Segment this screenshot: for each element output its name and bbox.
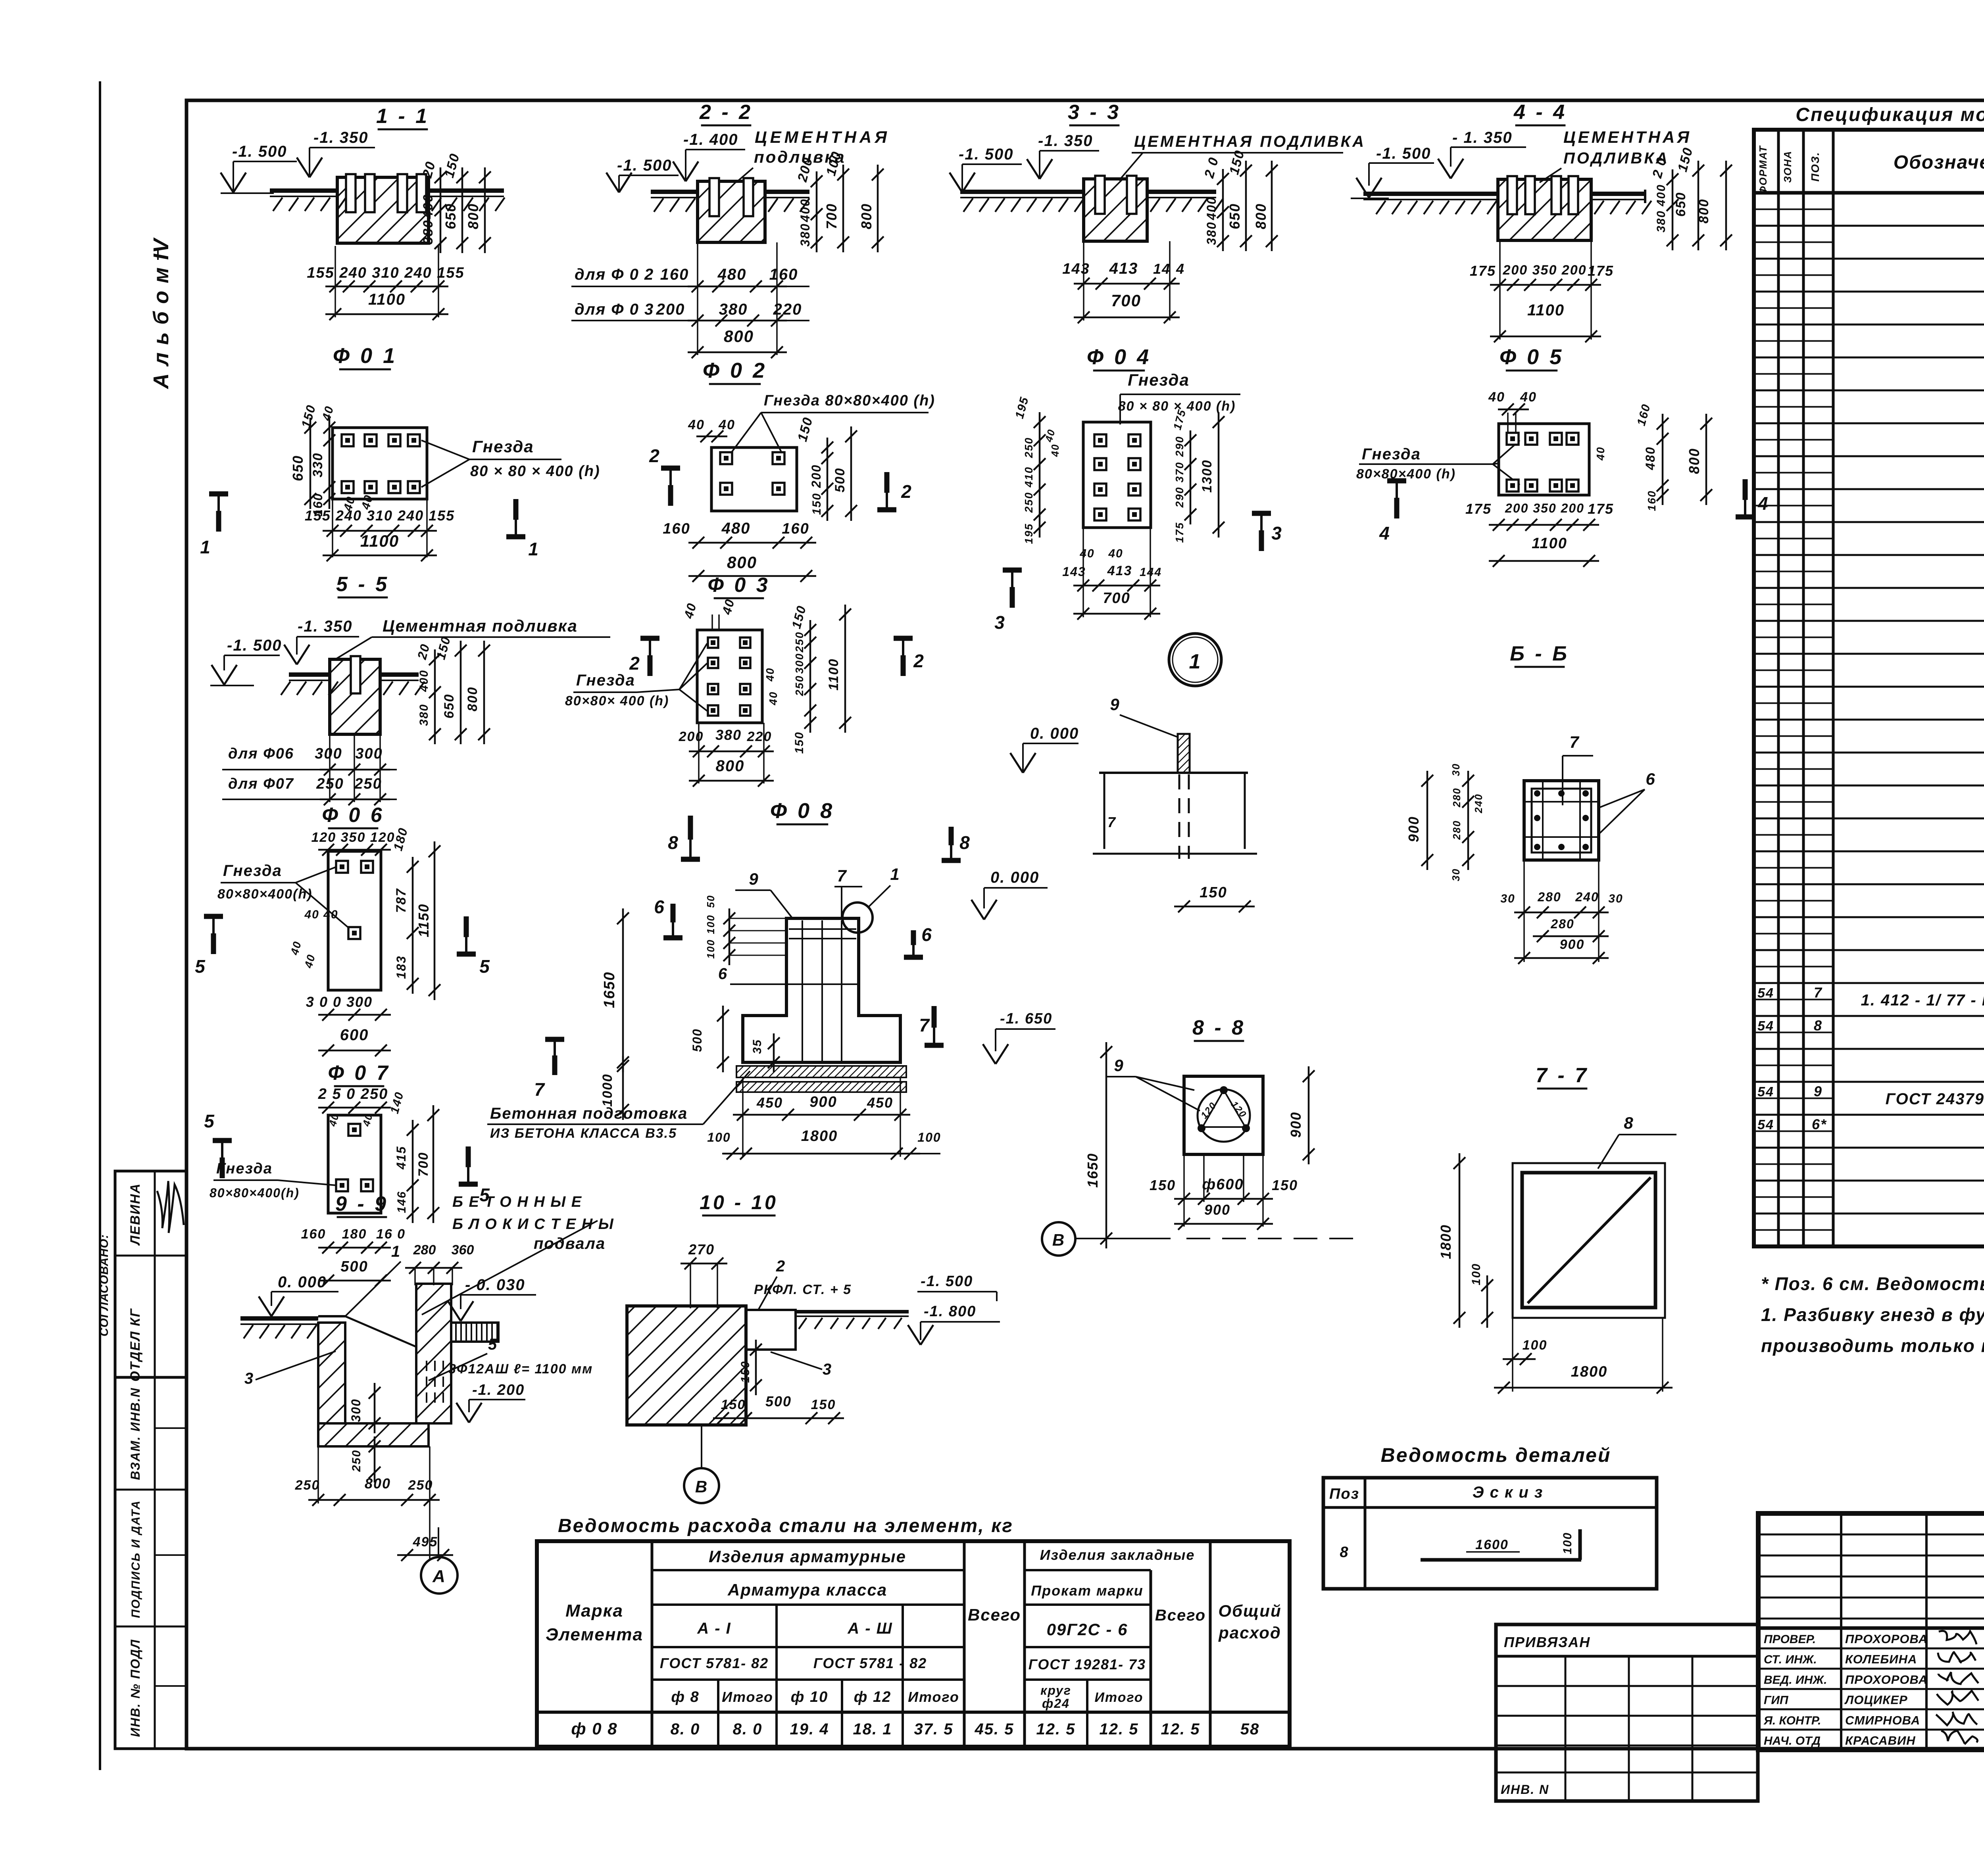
plan F04 sockets — [1094, 434, 1140, 520]
svg-text:280: 280 — [1451, 820, 1463, 840]
section 5-5 foundation block — [330, 659, 380, 734]
svg-text:400: 400 — [1655, 184, 1668, 207]
svg-text:40: 40 — [767, 691, 779, 705]
section 4-4 right dims — [1649, 146, 1732, 250]
svg-text:54: 54 — [1757, 1084, 1774, 1099]
svg-text:410: 410 — [1023, 467, 1035, 488]
svg-text:40: 40 — [688, 417, 705, 432]
svg-text:Ф 0 7: Ф 0 7 — [328, 1062, 390, 1085]
svg-text:700: 700 — [416, 1152, 431, 1177]
svg-text:Гнезда: Гнезда — [1128, 371, 1190, 389]
section 7-7 title — [1536, 1064, 1589, 1089]
svg-text:ЛОЦИКЕР: ЛОЦИКЕР — [1844, 1693, 1908, 1707]
svg-text:Ведомость деталей: Ведомость деталей — [1381, 1444, 1611, 1466]
plan F05 outline — [1499, 424, 1589, 495]
section 9-9 title — [335, 1192, 388, 1217]
svg-text:для Ф 0 3: для Ф 0 3 — [575, 301, 654, 318]
svg-text:ИНВ. № ПОДЛ: ИНВ. № ПОДЛ — [128, 1639, 142, 1737]
svg-text:150: 150 — [1200, 884, 1227, 901]
svg-text:для Ф07: для Ф07 — [228, 776, 294, 792]
plan F02 gnezda label — [730, 392, 935, 454]
plan F06 bottom dims — [306, 994, 391, 1056]
svg-text:195: 195 — [1023, 523, 1035, 544]
svg-text:ф 12: ф 12 — [854, 1689, 891, 1705]
section B-B title — [1510, 642, 1569, 667]
svg-text:100: 100 — [705, 914, 717, 934]
svg-text:1 - 1: 1 - 1 — [376, 105, 429, 128]
svg-text:1. 412 - 1/ 77 - В. 3 - 020: 1. 412 - 1/ 77 - В. 3 - 020 — [1861, 991, 1984, 1009]
section 9-9 footing — [318, 1423, 429, 1446]
section 9-9 label 3 — [244, 1351, 336, 1387]
svg-text:7: 7 — [1107, 814, 1116, 830]
svg-text:ЦЕМЕНТНАЯ: ЦЕМЕНТНАЯ — [755, 128, 890, 146]
section 8-8 square — [1184, 1076, 1263, 1154]
svg-text:Э с к и з: Э с к и з — [1473, 1484, 1544, 1501]
section 2-2 title — [699, 101, 753, 125]
svg-text:1800: 1800 — [1571, 1363, 1608, 1380]
section 10-10 bottom dims — [713, 1393, 844, 1425]
svg-text:Ф 0 6: Ф 0 6 — [322, 804, 384, 827]
spec table grid — [1754, 130, 1984, 1246]
vedomost detalei sketch — [1421, 1529, 1581, 1560]
svg-text:40: 40 — [1488, 390, 1505, 405]
section 5-5 right dims — [415, 635, 490, 744]
section 8-8 title — [1192, 1016, 1246, 1041]
plan F01 left dims — [290, 403, 336, 517]
svg-text:ФОРМАТ: ФОРМАТ — [1757, 145, 1769, 194]
svg-text:800: 800 — [1696, 199, 1711, 224]
svg-text:1650: 1650 — [1084, 1153, 1101, 1188]
detail 1 dim 150 — [1174, 884, 1255, 912]
section 9-9 pit left wall — [318, 1316, 416, 1423]
svg-text:150: 150 — [1150, 1177, 1176, 1193]
svg-text:2: 2 — [913, 651, 925, 671]
svg-text:Всего: Всего — [1155, 1607, 1206, 1624]
plan F04 outline — [1083, 422, 1151, 528]
svg-text:6: 6 — [921, 924, 932, 945]
svg-text:150: 150 — [721, 1397, 746, 1412]
svg-text:1: 1 — [1189, 650, 1202, 673]
plan F03 outline — [697, 630, 762, 723]
drawing frame — [186, 100, 1984, 1749]
section 2-2 right dims — [795, 150, 884, 252]
svg-text:-1. 650: -1. 650 — [1000, 1010, 1052, 1027]
elevation F08 title — [770, 799, 834, 824]
svg-text:40: 40 — [1520, 390, 1537, 405]
plan F06 right dims — [394, 841, 440, 1000]
section 10-10 label 3 — [771, 1352, 832, 1378]
svg-text:В: В — [1052, 1231, 1065, 1249]
spec table heading — [1796, 104, 1984, 125]
svg-text:58: 58 — [1240, 1720, 1260, 1738]
plan F04 title — [1087, 345, 1151, 371]
svg-text:СОГЛАСОВАНО:: СОГЛАСОВАНО: — [98, 1234, 111, 1336]
svg-text:7: 7 — [919, 1015, 930, 1035]
svg-text:ИЗ БЕТОНА КЛАССА В3.5: ИЗ БЕТОНА КЛАССА В3.5 — [490, 1126, 677, 1141]
section 3-3 right dims — [1202, 148, 1278, 251]
svg-text:37. 5: 37. 5 — [914, 1720, 954, 1738]
section 2-2 table dims — [571, 242, 809, 358]
svg-text:9: 9 — [1114, 1056, 1124, 1075]
section B-B bottom dims — [1500, 860, 1623, 964]
svg-text:8: 8 — [1624, 1114, 1634, 1132]
svg-text:50: 50 — [705, 895, 717, 908]
svg-text:500: 500 — [340, 1258, 368, 1275]
svg-text:183: 183 — [394, 955, 408, 979]
plan F01 title — [333, 344, 397, 369]
svg-text:240: 240 — [1473, 793, 1484, 813]
svg-text:Гнезда: Гнезда — [223, 862, 282, 879]
svg-text:Ф 0 1: Ф 0 1 — [333, 344, 397, 368]
svg-text:8: 8 — [1814, 1017, 1823, 1033]
svg-text:380: 380 — [1204, 221, 1219, 245]
svg-text:175: 175 — [1588, 501, 1614, 517]
album label — [149, 237, 173, 390]
plan F06 outline — [328, 851, 381, 990]
plan F07 title — [328, 1062, 390, 1086]
svg-text:290: 290 — [1173, 436, 1186, 457]
svg-text:6: 6 — [718, 965, 728, 983]
svg-text:ПРИВЯЗАН: ПРИВЯЗАН — [1504, 1634, 1590, 1650]
svg-text:300: 300 — [355, 745, 383, 762]
svg-text:1: 1 — [890, 865, 900, 883]
svg-text:0. 000: 0. 000 — [278, 1273, 327, 1291]
spec table header texts — [1757, 145, 1984, 194]
svg-text:300: 300 — [315, 745, 342, 762]
detail 1 level 0.000 — [1010, 725, 1079, 773]
svg-text:1100: 1100 — [1527, 301, 1565, 319]
section 2-2 level -1.500 — [606, 157, 679, 192]
section 2-2 cement label — [736, 128, 890, 182]
elevation F08 base slabs — [736, 1066, 906, 1092]
plan F07 right dims — [394, 1105, 439, 1223]
svg-text:-1. 350: -1. 350 — [298, 618, 353, 635]
svg-text:-1. 500: -1. 500 — [617, 157, 672, 174]
plan F03 cut marks — [629, 638, 925, 676]
section 1-1 title — [376, 105, 429, 129]
svg-text:380: 380 — [1655, 210, 1668, 232]
svg-text:8. 0: 8. 0 — [671, 1720, 700, 1738]
svg-text:3 - 3: 3 - 3 — [1068, 101, 1121, 124]
svg-text:45. 5: 45. 5 — [975, 1720, 1014, 1738]
elevation F08 cut mark 7 right — [919, 1006, 944, 1045]
svg-text:5 - 5: 5 - 5 — [336, 573, 389, 596]
elevation F08 rebar callout 6 — [718, 965, 859, 984]
svg-text:250: 250 — [295, 1478, 320, 1493]
elevation F08 cut marks 6 — [654, 897, 932, 957]
plan F01 outline — [333, 428, 427, 499]
title block names — [1763, 1631, 1978, 1747]
svg-text:7 - 7: 7 - 7 — [1536, 1064, 1589, 1087]
svg-text:-1. 500: -1. 500 — [227, 637, 282, 654]
section 8-8 left dim 1650 — [1084, 1042, 1112, 1248]
svg-text:* Поз. 6 см. Вед: * Поз. 6 см. Ведомость деталей — [1761, 1273, 1984, 1294]
svg-text:Цементная подливка: Цементная подливка — [383, 616, 578, 635]
svg-text:- 0. 030: - 0. 030 — [465, 1276, 525, 1294]
svg-text:4: 4 — [1176, 261, 1185, 277]
svg-text:-1. 500: -1. 500 — [1376, 145, 1431, 162]
svg-text:495: 495 — [413, 1534, 438, 1550]
svg-text:150: 150 — [793, 732, 806, 754]
svg-text:-1. 350: -1. 350 — [1038, 132, 1093, 150]
svg-text:800: 800 — [724, 327, 754, 346]
svg-text:500: 500 — [690, 1028, 704, 1052]
svg-text:280: 280 — [1537, 890, 1561, 904]
svg-text:Гнезда 80×80×400 (h): Гнезда 80×80×400 (h) — [764, 392, 935, 409]
section 5-5 table dims — [222, 734, 397, 805]
svg-text:415: 415 — [394, 1146, 408, 1169]
plan F04 bottom dims — [1062, 528, 1162, 620]
section B-B left dims — [1405, 763, 1484, 881]
svg-text:Б Е Т О Н Н Ы Е: Б Е Т О Н Н Ы Е — [452, 1194, 582, 1210]
svg-text:40: 40 — [1079, 547, 1094, 560]
plan F04 gnezda label — [1118, 371, 1240, 424]
svg-text:160: 160 — [660, 266, 689, 283]
svg-text:250: 250 — [793, 632, 806, 653]
svg-text:Поз: Поз — [1329, 1486, 1359, 1502]
svg-text:290: 290 — [1173, 487, 1186, 508]
svg-text:А - I: А - I — [697, 1620, 731, 1637]
svg-text:100: 100 — [1470, 1263, 1483, 1285]
svg-text:450: 450 — [756, 1094, 783, 1111]
svg-text:СМИРНОВА: СМИРНОВА — [1845, 1713, 1920, 1727]
svg-text:800: 800 — [727, 553, 757, 572]
svg-text:270: 270 — [688, 1241, 715, 1258]
svg-text:8: 8 — [1340, 1544, 1349, 1561]
section 1-1 anchor slots — [346, 174, 426, 212]
section 7-7 label 8 — [1598, 1114, 1676, 1169]
svg-text:40 40: 40 40 — [304, 908, 338, 921]
section 1-1 level -1.350 — [297, 129, 375, 177]
section 1-1 level -1.500 — [221, 143, 297, 192]
svg-text:Ф 0 2: Ф 0 2 — [703, 359, 767, 382]
section 1-1 bottom dims — [307, 246, 464, 320]
elevation F08 level -1.650 right — [983, 1010, 1055, 1064]
plan F02 right dims — [809, 426, 857, 521]
svg-text:5: 5 — [488, 1336, 498, 1353]
svg-text:ЗОНА: ЗОНА — [1782, 150, 1794, 183]
svg-text:900: 900 — [1405, 816, 1422, 842]
section 4-4 level -1.500 — [1351, 145, 1434, 198]
svg-text:1600: 1600 — [1475, 1537, 1509, 1552]
steel table title — [558, 1515, 1013, 1536]
svg-text:380: 380 — [417, 704, 431, 726]
svg-text:100: 100 — [917, 1130, 941, 1144]
svg-text:1800: 1800 — [801, 1128, 838, 1144]
svg-text:40: 40 — [718, 417, 735, 432]
plan F02 outline — [711, 447, 797, 511]
plan F03 gnezda label — [565, 643, 707, 711]
svg-text:0. 000: 0. 000 — [1030, 725, 1079, 742]
detail 1 label 9 — [1110, 695, 1178, 737]
svg-text:220: 220 — [747, 729, 772, 744]
svg-text:400: 400 — [798, 198, 812, 222]
svg-text:300: 300 — [793, 653, 806, 674]
section 2-2 floor slabs — [651, 190, 809, 212]
spec table entries — [1757, 200, 1984, 1206]
section 4-4 foundation block — [1498, 179, 1591, 240]
svg-text:14: 14 — [1153, 261, 1171, 277]
svg-text:ЦЕМЕНТНАЯ: ЦЕМЕНТНАЯ — [1563, 128, 1692, 146]
svg-text:155 240 310 240 155: 155 240 310 240 155 — [305, 507, 455, 524]
svg-text:380: 380 — [798, 223, 812, 246]
svg-text:146: 146 — [395, 1191, 408, 1213]
svg-text:5: 5 — [195, 956, 206, 977]
svg-text:09Г2С - 6: 09Г2С - 6 — [1047, 1620, 1128, 1639]
svg-text:1000: 1000 — [600, 1073, 615, 1107]
section 5-5 anchor slot — [351, 656, 360, 693]
svg-text:700: 700 — [1111, 291, 1141, 310]
section 9-9 level 0.000 — [259, 1273, 338, 1316]
plan F02 40-40 dims — [688, 415, 816, 443]
svg-text:800: 800 — [716, 757, 745, 775]
plan F02 bottom dims — [663, 520, 816, 582]
plan F05 40-40 dims — [1488, 390, 1537, 439]
svg-text:100: 100 — [1523, 1338, 1548, 1353]
plan F03 top dims — [681, 597, 809, 630]
plan F06 title — [322, 804, 384, 828]
stamp box soglasovano — [98, 1171, 186, 1382]
svg-text:2: 2 — [649, 445, 660, 466]
svg-text:700: 700 — [1103, 590, 1130, 607]
svg-text:413: 413 — [1109, 260, 1138, 277]
svg-text:6: 6 — [1646, 770, 1655, 788]
plan F05 title — [1500, 345, 1564, 371]
svg-text:19. 4: 19. 4 — [790, 1720, 829, 1738]
svg-text:160: 160 — [769, 266, 798, 283]
svg-text:2: 2 — [776, 1258, 786, 1275]
svg-text:200 350 200: 200 350 200 — [1502, 263, 1586, 278]
plan F05 cut marks — [1379, 479, 1769, 543]
stamp box inv — [115, 1377, 186, 1749]
detail 1 floor line — [1099, 773, 1248, 859]
svg-text:40: 40 — [1108, 547, 1123, 560]
detail 1 pit bottom — [1093, 853, 1257, 855]
svg-text:1150: 1150 — [415, 903, 432, 937]
section 10-10 title — [700, 1191, 778, 1215]
svg-text:9 - 9: 9 - 9 — [335, 1192, 388, 1215]
vedomost detalei table — [1323, 1478, 1657, 1589]
svg-text:Изделия закладные: Изделия закладные — [1040, 1547, 1195, 1563]
plan F03 bottom dims — [679, 723, 774, 787]
svg-text:500: 500 — [765, 1393, 792, 1409]
svg-text:6*: 6* — [1812, 1116, 1827, 1132]
svg-text:Всего: Всего — [968, 1605, 1021, 1624]
elevation F08 left dims — [600, 895, 786, 1120]
svg-text:280: 280 — [413, 1242, 436, 1258]
plan F01 bottom dims — [305, 493, 455, 561]
svg-text:175: 175 — [1173, 522, 1186, 543]
plan F01 gnezda label — [421, 437, 600, 487]
svg-text:ф24: ф24 — [1042, 1696, 1070, 1711]
svg-text:400: 400 — [1204, 196, 1219, 220]
section 9-9 wall label — [422, 1194, 614, 1315]
svg-text:143: 143 — [1062, 565, 1086, 579]
svg-text:ПОДПИСЬ И ДАТА: ПОДПИСЬ И ДАТА — [129, 1500, 142, 1618]
svg-text:ГОСТ 24379.1 - 80: ГОСТ 24379.1 - 80 — [1886, 1090, 1984, 1108]
svg-text:Обозначение: Обозначение — [1894, 152, 1984, 173]
svg-text:12. 5: 12. 5 — [1036, 1720, 1076, 1738]
section 2-2 foundation block — [698, 181, 765, 242]
section 9-9 labels top — [345, 1242, 474, 1316]
plan F02 sockets — [720, 452, 784, 495]
svg-text:Гнезда: Гнезда — [576, 672, 635, 689]
svg-text:Итого: Итого — [908, 1689, 959, 1705]
steel table grid — [537, 1541, 1290, 1747]
section B-B label 7 — [1563, 733, 1593, 805]
svg-text:300: 300 — [349, 1398, 363, 1422]
svg-text:ГОСТ 5781- 82: ГОСТ 5781- 82 — [660, 1655, 769, 1671]
section 7-7 square — [1513, 1163, 1665, 1318]
elevation F08 cut mark 8 left — [668, 816, 700, 859]
svg-text:для Ф 0 2: для Ф 0 2 — [575, 266, 654, 283]
svg-text:1650: 1650 — [601, 972, 618, 1008]
plan F05 bottom dims — [1465, 501, 1614, 567]
svg-text:ЛЕВИНА: ЛЕВИНА — [128, 1183, 143, 1246]
svg-text:143: 143 — [1062, 261, 1090, 277]
svg-text:3 0 0 300: 3 0 0 300 — [306, 994, 373, 1010]
plan F03 sockets — [708, 637, 750, 716]
svg-text:ГОСТ 5781 - 82: ГОСТ 5781 - 82 — [813, 1655, 927, 1671]
svg-text:54: 54 — [1757, 1117, 1774, 1132]
svg-text:для Ф06: для Ф06 — [228, 745, 294, 762]
svg-text:1: 1 — [528, 539, 539, 559]
svg-text:-1. 500: -1. 500 — [232, 143, 287, 160]
svg-text:Бетонная подготовка: Бетонная подготовка — [490, 1105, 688, 1122]
plan F07 top dims — [318, 1086, 406, 1128]
section 5-5 cement label — [335, 616, 610, 659]
svg-text:155 240 310 240 155: 155 240 310 240 155 — [307, 265, 464, 281]
plan F06 cut marks — [195, 916, 490, 977]
elevation F08 podgotovka label — [487, 1071, 750, 1141]
svg-text:160: 160 — [782, 520, 809, 537]
svg-text:1100: 1100 — [360, 532, 399, 550]
svg-text:360: 360 — [452, 1242, 474, 1258]
elevation F08 cut mark 7 left — [534, 1039, 564, 1100]
plan F01 sockets — [342, 434, 420, 493]
section 5-5 level -1.500 — [211, 637, 282, 685]
svg-text:1100: 1100 — [1532, 535, 1567, 552]
svg-text:800: 800 — [1253, 203, 1269, 229]
section 2-2 level -1.400 — [673, 131, 745, 181]
svg-text:Общий: Общий — [1218, 1601, 1281, 1620]
svg-text:В: В — [695, 1477, 708, 1496]
svg-text:180: 180 — [342, 1227, 367, 1242]
plan F04 right dims — [1171, 408, 1225, 543]
svg-text:2: 2 — [629, 653, 640, 674]
svg-text:ПРОХОРОВА: ПРОХОРОВА — [1845, 1672, 1928, 1686]
svg-text:Ф 0 3: Ф 0 3 — [707, 574, 770, 597]
svg-text:ф 0 8: ф 0 8 — [571, 1719, 617, 1738]
svg-text:100: 100 — [705, 939, 717, 958]
page left trim line — [99, 81, 101, 1770]
svg-text:650: 650 — [1227, 203, 1243, 229]
svg-text:-1. 400: -1. 400 — [683, 131, 738, 148]
svg-text:2 - 2: 2 - 2 — [699, 101, 753, 124]
svg-text:0. 000: 0. 000 — [990, 869, 1039, 886]
section 10-10 node B — [684, 1425, 719, 1503]
svg-text:30: 30 — [1500, 892, 1515, 905]
svg-text:480: 480 — [1643, 446, 1657, 470]
elevation F08 pedestal — [743, 918, 900, 1062]
svg-text:2: 2 — [901, 481, 912, 502]
svg-text:160: 160 — [301, 1227, 326, 1242]
plan F07 bottom dims — [301, 1227, 406, 1287]
section 10-10 dim 270 — [681, 1241, 727, 1308]
svg-text:800: 800 — [858, 203, 875, 229]
svg-text:10 - 10: 10 - 10 — [700, 1191, 778, 1214]
svg-text:ОТДЕЛ КГ: ОТДЕЛ КГ — [128, 1308, 143, 1382]
